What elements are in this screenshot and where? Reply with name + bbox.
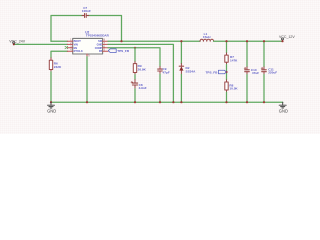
svg-text:47pF: 47pF bbox=[163, 70, 170, 74]
wire: C10 to rail bbox=[246, 75, 248, 103]
capacitor C9 bbox=[158, 67, 163, 75]
resistor R9 bbox=[134, 62, 136, 64]
wire: VIN row bbox=[14, 43, 68, 45]
wire: fb divider top bbox=[226, 41, 228, 53]
ground symbol right bbox=[279, 102, 286, 108]
no-connect X on EN pin bbox=[65, 46, 68, 49]
resistor R6 bbox=[49, 60, 52, 69]
junction at flag VCC bbox=[281, 40, 283, 42]
inductor L1 bbox=[200, 39, 214, 41]
wire: fb mid bbox=[226, 62, 228, 64]
wire: C9 to rail bbox=[159, 74, 161, 102]
wire: D2 column bbox=[180, 41, 182, 63]
junction VOUT/C10 bbox=[246, 40, 248, 42]
svg-text:RT/CLK: RT/CLK bbox=[74, 50, 83, 53]
junctions on rail bbox=[50, 101, 265, 103]
junction fb label bbox=[225, 71, 227, 73]
junction VOUT/fb bbox=[225, 40, 227, 42]
resistor R8 bbox=[225, 82, 228, 90]
wire: C11 column top bbox=[263, 41, 265, 67]
wire: BOOT pin to loop bbox=[51, 40, 68, 42]
global label TPS_FB (right) bbox=[206, 70, 227, 74]
junction at flag VDC bbox=[13, 43, 15, 45]
junction VOUT/C11 bbox=[263, 40, 265, 42]
wire: pad to gnd rail bbox=[86, 57, 88, 102]
pin numbers bbox=[70, 39, 105, 57]
wire: bootstrap loop right bbox=[88, 16, 122, 42]
junction SW/D2 bbox=[180, 40, 182, 42]
IC U2 TPS54560DDAR body bbox=[73, 38, 103, 54]
svg-text:SS34A: SS34A bbox=[186, 69, 197, 73]
wire: R6 to gnd rail bbox=[50, 70, 52, 72]
capacitor C11 bbox=[261, 67, 266, 75]
wire: D2 to rail bbox=[180, 74, 182, 102]
power flag VDC_24V bbox=[13, 42, 15, 45]
pin stubs right bbox=[103, 41, 108, 51]
global label TPS_FB (at FB pin) bbox=[108, 49, 130, 53]
svg-text:10.5K: 10.5K bbox=[229, 87, 238, 91]
svg-text:26.9K: 26.9K bbox=[138, 67, 147, 71]
svg-text:3.9nF: 3.9nF bbox=[139, 86, 147, 90]
pin stub pad 9 bbox=[86, 54, 88, 57]
wire: RT/CLK to R6 bbox=[51, 51, 68, 58]
svg-text:147K: 147K bbox=[230, 58, 238, 62]
wire: VOUT row bbox=[214, 40, 283, 42]
capacitor C10 bbox=[244, 67, 249, 75]
svg-text:VDC_24V: VDC_24V bbox=[9, 40, 25, 44]
svg-text:TPS54560DDAR: TPS54560DDAR bbox=[86, 34, 110, 38]
wire: C10 column top bbox=[246, 41, 248, 67]
wire: GND row to drop bbox=[108, 44, 173, 102]
wire: gnd rail bbox=[51, 101, 283, 103]
power flag VCC_12V bbox=[282, 38, 284, 41]
junction SW/boot loop bbox=[120, 40, 122, 42]
wire: C8 to rail bbox=[134, 89, 136, 102]
diode D2 bbox=[179, 64, 183, 75]
capacitor C7 bbox=[82, 14, 89, 18]
svg-text:232K: 232K bbox=[54, 65, 62, 69]
resistor R7 bbox=[225, 55, 228, 62]
svg-text:VCC_12V: VCC_12V bbox=[279, 35, 295, 39]
svg-text:TPS_FB: TPS_FB bbox=[117, 49, 130, 53]
svg-text:100nF: 100nF bbox=[82, 9, 91, 13]
wire: comp chain upper bbox=[134, 48, 136, 62]
wire: C11 to rail bbox=[263, 75, 265, 103]
wire: COMP row bbox=[108, 48, 160, 67]
junction COMP/R9 bbox=[134, 47, 136, 49]
pin stubs left bbox=[67, 41, 72, 51]
capacitor C8 bbox=[131, 80, 138, 89]
svg-text:GND: GND bbox=[279, 108, 288, 113]
wire: SW row to L1 bbox=[108, 40, 200, 42]
ground symbol left bbox=[48, 102, 55, 108]
svg-text:220uF: 220uF bbox=[268, 71, 277, 75]
svg-text:FB: FB bbox=[99, 50, 103, 53]
svg-text:GND: GND bbox=[47, 108, 56, 113]
wire: bootstrap loop top bbox=[51, 16, 83, 42]
pin names bbox=[74, 40, 103, 53]
wire: fb bottom to rail bbox=[226, 90, 228, 92]
wire: R9 to C8 bbox=[134, 73, 136, 75]
svg-text:47uF: 47uF bbox=[252, 71, 259, 75]
svg-text:15uH: 15uH bbox=[203, 35, 211, 39]
background grid bbox=[0, 0, 320, 134]
svg-text:TPS_FB: TPS_FB bbox=[206, 70, 219, 74]
